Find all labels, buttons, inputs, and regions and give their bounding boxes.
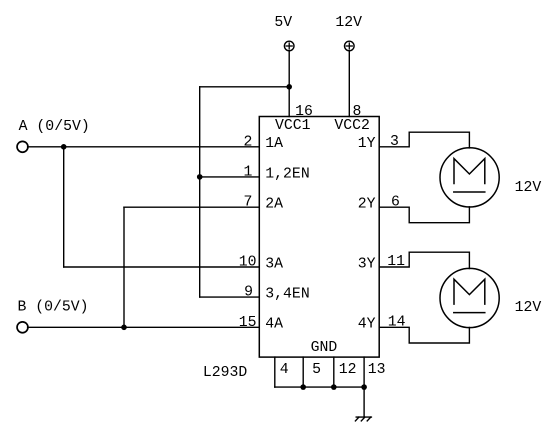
svg-text:13: 13 <box>368 362 386 378</box>
ground bus wire <box>275 386 364 388</box>
input terminal B <box>17 322 28 333</box>
motor M1 <box>440 148 499 207</box>
motor M2 <box>440 268 499 327</box>
wire pin 12 to ground bus <box>333 357 335 387</box>
wire to pin 1 (1,2EN) <box>200 176 260 178</box>
wire pin 3 (1Y) to motor M1 top <box>379 132 469 148</box>
svg-text:12V: 12V <box>515 180 542 196</box>
svg-text:4Y: 4Y <box>358 317 376 333</box>
junction enable net at pin 1 <box>197 174 203 180</box>
svg-text:A (0/5V): A (0/5V) <box>19 119 90 135</box>
wire net A to pin 10 (3A) <box>64 266 260 268</box>
svg-text:5V: 5V <box>274 15 292 31</box>
svg-text:11: 11 <box>387 254 405 270</box>
svg-text:15: 15 <box>239 315 257 331</box>
wire to pin 9 (3,4EN) <box>200 296 260 298</box>
svg-text:3,4EN: 3,4EN <box>265 287 309 303</box>
svg-text:1,2EN: 1,2EN <box>265 166 309 182</box>
junction pin 13 / bus <box>361 384 367 390</box>
svg-text:1: 1 <box>244 164 253 180</box>
IC U1 L293D body <box>259 117 379 358</box>
ground <box>355 417 371 421</box>
wire pin 4 to ground bus <box>274 357 276 387</box>
svg-text:10: 10 <box>239 255 257 271</box>
wire pin 5 to ground bus <box>302 357 304 387</box>
svg-text:12V: 12V <box>515 300 542 316</box>
svg-text:3: 3 <box>390 134 399 150</box>
wire pin 13 to ground bus <box>363 357 365 387</box>
wire 5V to pin 16 (VCC1) <box>288 51 290 117</box>
svg-text:2: 2 <box>244 134 253 150</box>
junction pin 5 / bus <box>300 384 306 390</box>
svg-text:5: 5 <box>312 362 321 378</box>
svg-text:9: 9 <box>244 285 253 301</box>
svg-text:1A: 1A <box>265 136 283 152</box>
svg-text:7: 7 <box>244 195 253 211</box>
svg-text:4A: 4A <box>265 317 283 333</box>
power symbol 5V <box>284 41 294 51</box>
wire 12V to pin 8 (VCC2) <box>348 51 350 117</box>
svg-text:12: 12 <box>339 362 357 378</box>
svg-text:GND: GND <box>311 340 338 356</box>
wire net B to pin 15 (4A) <box>28 326 260 328</box>
wire net A to pin 2 (1A) <box>28 146 260 148</box>
wire net B vertical <box>123 207 125 327</box>
svg-text:6: 6 <box>391 194 400 210</box>
junction on net B <box>121 325 127 331</box>
wire pin 14 (4Y) to motor M2 bottom <box>379 327 469 343</box>
wire bus to ground <box>363 387 365 417</box>
svg-text:3Y: 3Y <box>358 256 376 272</box>
power symbol 12V <box>345 41 355 51</box>
svg-text:2Y: 2Y <box>358 197 376 213</box>
svg-text:VCC2: VCC2 <box>334 118 370 134</box>
svg-text:1Y: 1Y <box>358 136 376 152</box>
junction 5V / enable net <box>286 84 292 90</box>
junction on net A <box>61 144 67 150</box>
svg-text:B (0/5V): B (0/5V) <box>17 300 88 316</box>
input terminal A <box>17 141 28 152</box>
svg-text:4: 4 <box>280 362 289 378</box>
svg-text:VCC1: VCC1 <box>275 118 311 134</box>
svg-text:12V: 12V <box>335 15 362 31</box>
svg-text:14: 14 <box>388 314 406 330</box>
svg-text:2A: 2A <box>265 197 283 213</box>
wire enable net horizontal <box>200 86 290 88</box>
wire enable net vertical <box>199 87 201 297</box>
wire net A vertical <box>63 147 65 267</box>
svg-text:L293D: L293D <box>203 365 248 381</box>
wire pin 6 (2Y) to motor M1 bottom <box>379 207 469 223</box>
wire net B to pin 7 (2A) <box>124 206 259 208</box>
junction pin 12 / bus <box>331 384 337 390</box>
wire pin 11 (3Y) to motor M2 top <box>379 252 469 268</box>
svg-text:3A: 3A <box>265 256 283 272</box>
